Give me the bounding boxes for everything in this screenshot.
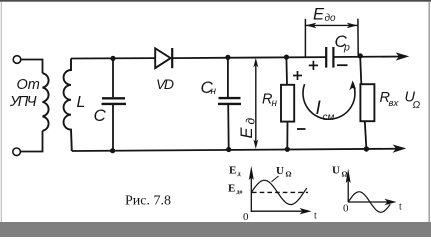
resistor Rн (281, 57, 294, 149)
wire top rail left segment (71, 57, 155, 59)
svg-text:0: 0 (343, 203, 349, 215)
capacitor Cн (load) (218, 57, 241, 149)
svg-text:до: до (237, 190, 243, 196)
node dot rail-Rн bottom (285, 147, 290, 152)
svg-text:до: до (325, 13, 337, 24)
svg-text:Е: Е (313, 6, 325, 24)
label UΩ (schematic) (405, 90, 421, 112)
svg-text:д: д (244, 118, 258, 125)
svg-text:Ω: Ω (413, 100, 421, 111)
svg-text:УПЧ: УПЧ (9, 94, 37, 110)
graph2 label UΩ (332, 165, 348, 179)
page left border line (1, 2, 2, 222)
node dot rail-Rвх bottom (364, 146, 369, 151)
input terminal bottom (13, 148, 21, 156)
svg-text:U: U (332, 165, 340, 177)
svg-text:VD: VD (156, 76, 174, 92)
node dot rail-Rн top (284, 55, 289, 60)
graph2 x-axis (348, 199, 396, 205)
graph1 x-axis (251, 208, 311, 214)
wire bottom rail with arrow (72, 145, 407, 153)
label Rн (262, 92, 278, 110)
label Едо (313, 6, 336, 25)
label Rвх (380, 90, 400, 109)
graph2 signal curve (348, 192, 390, 213)
svg-text:вх: вх (389, 98, 400, 109)
svg-text:0: 0 (243, 211, 249, 223)
wire top rail middle segment (172, 57, 325, 58)
svg-text:н: н (272, 98, 278, 109)
graph1 y-axis (249, 166, 254, 212)
diode VD (155, 48, 172, 68)
svg-text:t: t (314, 211, 317, 222)
svg-text:U: U (276, 165, 284, 177)
dimension arrow Едо (305, 19, 358, 57)
label Cр (335, 32, 351, 54)
page bottom border bar (0, 222, 431, 237)
graph1 label Едо (228, 183, 243, 196)
wire top terminal to primary (21, 60, 43, 74)
input terminal top (13, 56, 21, 64)
label Iсм (316, 98, 335, 123)
graph1 dashed level line (252, 191, 308, 193)
label От УПЧ (9, 77, 40, 110)
page right border line (429, 2, 430, 222)
svg-text:Ω: Ω (286, 170, 292, 179)
inductor L secondary winding (64, 59, 72, 152)
graph1 callout line UΩ (272, 176, 279, 182)
graph1 label UΩ (276, 165, 292, 179)
graph1 signal curve (251, 180, 306, 204)
svg-text:д: д (238, 172, 241, 178)
svg-text:E: E (228, 183, 235, 195)
dimension arrow Ед (253, 58, 258, 149)
svg-text:см: см (323, 112, 335, 123)
page top border bar (0, 0, 431, 2)
svg-text:t: t (399, 202, 402, 213)
capacitor Cр (coupling) (326, 47, 333, 68)
capacitor C (tank) (102, 59, 127, 151)
svg-text:Ω: Ω (342, 170, 348, 179)
plus sign Rн (293, 71, 302, 80)
svg-text:I: I (316, 98, 322, 119)
minus sign Rн (297, 128, 306, 130)
svg-text:C: C (94, 106, 107, 125)
node dot rail-C bottom (110, 148, 115, 153)
node dot rail-Rвх top (358, 53, 363, 58)
svg-text:р: р (343, 42, 350, 54)
graph1 label Ед (229, 165, 241, 178)
minus sign Cр (337, 64, 348, 66)
wire primary to bottom terminal (21, 131, 43, 152)
svg-text:Рис. 7.8: Рис. 7.8 (125, 194, 171, 209)
svg-text:н: н (211, 86, 217, 97)
node dot rail-Cн top (225, 55, 230, 60)
label Ед (rotated) (238, 118, 258, 139)
wire top rail right segment with arrow (333, 52, 409, 60)
plus sign Cр (309, 61, 318, 70)
resistor Rвх (360, 56, 374, 149)
svg-text:L: L (77, 94, 86, 111)
node dot rail-C top (110, 56, 115, 61)
inductor L1 primary winding (43, 73, 49, 131)
node dot rail-Cн bottom (226, 147, 231, 152)
svg-text:От: От (17, 77, 40, 93)
svg-text:E: E (229, 165, 236, 177)
current loop arrow Iсм (303, 80, 356, 119)
graph2 y-axis (346, 169, 351, 203)
svg-text:Е: Е (238, 127, 256, 139)
label Cн (201, 78, 217, 97)
